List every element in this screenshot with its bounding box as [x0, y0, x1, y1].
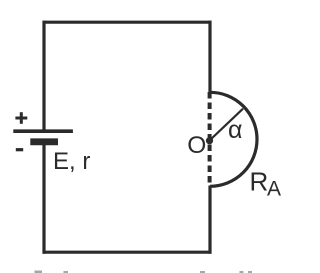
semicircle arc RA	[210, 92, 257, 186]
wire right lower	[208, 186, 211, 254]
svg-text:O: O	[187, 132, 206, 159]
minus sign	[16, 148, 23, 151]
dashed diameter line	[208, 92, 212, 185]
svg-text:E, r: E, r	[53, 148, 90, 175]
battery negative plate (short thick)	[30, 138, 58, 145]
wire top	[43, 21, 212, 24]
node O dot	[206, 137, 213, 144]
wire bottom	[43, 251, 212, 254]
cropped text fragments at bottom edge	[35, 271, 253, 273]
wire right upper	[208, 21, 211, 93]
plus sign	[15, 112, 27, 124]
wire left lower	[42, 145, 45, 254]
svg-text:A: A	[267, 178, 281, 201]
wire left upper	[42, 21, 45, 130]
battery positive plate (long)	[13, 129, 73, 133]
svg-text:α: α	[228, 116, 242, 144]
radius line to arc	[210, 109, 244, 141]
svg-text:R: R	[250, 167, 269, 197]
